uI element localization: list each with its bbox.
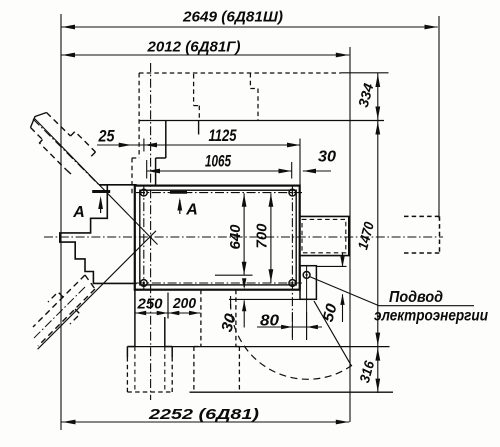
svg-text:А: А [72,204,85,221]
dim 334 arrows [375,74,380,120]
ram far position dashed top [404,215,440,217]
extension line y=392.2 [190,391,394,393]
band2 step b [70,309,80,324]
band2 edge b [38,289,95,346]
diagonal axis lower [38,231,156,349]
hole row centerline bottom [136,282,302,284]
dimension 2252 label [148,406,259,423]
dashed column mid edge b [198,106,200,120]
dashed column left lower [131,158,133,196]
dim 1470 label [354,220,377,251]
band upper edge a [47,113,71,137]
svg-text:1125: 1125 [209,126,237,145]
dimension 2012 right arrow [336,53,349,58]
ext tick x=146.7 for 1065 [146,160,148,179]
dashed column left edge [138,73,140,158]
dim 316 label [356,359,377,385]
dashed column right edge b [257,89,259,121]
dim 1125 label [209,126,237,145]
dimension 2252 left arrow [63,420,76,425]
ext line y=275.2 for 640 [215,274,253,276]
ext tick x=143.9 [143,139,145,152]
dim 640 arrows [242,194,247,275]
extension line x=439 (2649 far end) [438,16,440,219]
section mark A left thick [92,190,110,193]
dimension 2649 left arrow [62,25,75,30]
ext line x=300 [299,139,301,186]
dim 200 arrows [168,311,200,315]
dim 25/1125 left arrow [144,143,157,148]
door swing dashed arc [231,304,353,379]
box top extension right [316,265,346,267]
svg-text:электроэнергии: электроэнергии [374,308,488,325]
section arrow A right [177,198,182,215]
ram far position dashed right [439,216,441,253]
svg-text:1065: 1065 [205,152,231,171]
dim 700 arrows [269,194,274,282]
dim 200 label [172,295,197,312]
ext tick x=230.6 [230,296,232,308]
ext tick x=291.7 for 1065 [291,162,293,179]
power label line1 [389,289,443,306]
band cap upper-left [31,113,47,128]
extension line y=120.5 long [139,120,384,122]
band2 edge a [33,275,85,327]
bolt hole bottom-right [289,280,296,287]
dim 1065 arrows [147,169,292,174]
left leg left edge [134,290,136,347]
dim 30 bottom arrow down [242,278,246,289]
dim 30 top label [318,149,336,166]
swivel head stepped outline [60,185,137,284]
head top edge [99,184,137,186]
dimension 2252 line [61,421,349,423]
dashed column mid step [194,105,200,107]
hole column centerline left [143,187,145,291]
dim 30 bottom arrow up [242,300,246,327]
dim 640 label [228,225,244,250]
dashed column right edge a [249,73,251,89]
dashed column right step [250,88,258,90]
door open line [314,301,352,366]
svg-text:25: 25 [98,127,115,146]
band lower step [40,140,67,171]
ext tick x=307 lower [306,312,308,340]
dim 25-1125 shared line [97,144,300,146]
svg-text:2252 (6Д81): 2252 (6Д81) [148,406,259,423]
section label A right [185,202,198,219]
ram inner dashed [302,219,346,252]
right leg dashed left [200,290,202,347]
bolt hole top-left [140,189,147,196]
bed inner rectangle [140,190,296,285]
dim 334 label [355,81,377,109]
svg-text:1470: 1470 [354,220,377,251]
svg-text:334: 334 [355,81,377,109]
dim 50 line lower [340,294,344,322]
left leg hidden edge left [134,347,136,391]
svg-text:А: А [185,202,198,219]
electrical hole axis [306,266,308,340]
dimension 2012 label [146,39,240,56]
electrical box [300,266,316,300]
column left edge lower [155,158,157,186]
svg-text:50: 50 [320,301,341,323]
dim 80 line [257,326,322,328]
bed outer rectangle [135,186,300,290]
right leg lower sides [194,347,240,393]
dimension 2012 left arrow [62,53,75,58]
dim 80 label [260,313,279,330]
right leg dashed right [235,290,237,347]
section mark A right thick [170,191,187,194]
svg-text:640: 640 [228,225,244,250]
svg-text:250: 250 [137,296,164,313]
svg-text:2012 (6Д81Г): 2012 (6Д81Г) [146,39,240,56]
dim 700 label [255,224,271,249]
dim 640 line [243,193,245,275]
dimension line x=378 (334/1470/316 chain) [377,73,379,393]
dimension 2012 line [61,54,349,56]
band2 step a [48,292,63,302]
column inner edge right [198,121,200,135]
dim 50 line upper [340,253,344,267]
dim 80 arrows [281,325,318,329]
hole row centerline top [136,192,302,194]
horizontal centerline [44,236,443,238]
dim 25 label [98,127,115,146]
bolt hole top-right [289,189,296,196]
svg-text:316: 316 [356,359,377,385]
section label A left [72,204,85,221]
dash-dot axis lower-left [33,287,85,339]
ext tick x=168 [167,293,169,319]
hole column centerline right [291,187,293,341]
power leader line [310,277,379,306]
dashed column step left [132,157,139,159]
left leg hidden edge right [164,347,166,391]
extension line left x=61 [60,14,62,430]
svg-text:Подвод: Подвод [389,289,443,306]
column step [156,157,166,159]
vertical centerline [150,63,152,400]
svg-text:30: 30 [318,149,336,166]
electrical hole [303,272,310,279]
band upper cap [91,152,96,157]
dim 30 top arrow [303,169,316,174]
left leg shoulder [127,346,172,348]
dim 200 line [168,312,200,314]
dashed column mid edge a [193,74,195,106]
power label underline [379,305,474,307]
extension line y=346.5 full width [127,346,389,348]
ext tick x=293 lower [291,312,293,340]
dim 250 line [135,312,168,314]
dimension 2649 line [61,26,438,28]
dim 1470 arrows [375,122,380,346]
dim 1125 right arrow [287,143,300,148]
column left edge upper [165,121,167,159]
dim 50 label [320,301,341,323]
dim 700 line [270,193,272,282]
dimension 2252 right arrow [336,420,349,425]
dashed column top edge [139,72,341,74]
band2 cap [85,275,95,289]
dimension 2649 right arrow [425,25,438,30]
power label line2 [374,308,488,325]
diagonal axis upper [34,118,158,245]
dim 1065 line [147,170,292,172]
dim 1065 label [205,152,231,171]
band lower edge a [31,128,43,140]
band upper step [71,132,96,153]
right leg shoulder [194,346,240,348]
box bottom extension left [229,298,300,300]
dim 250 arrows [135,311,168,315]
band lower edge b [67,170,72,175]
left leg right edge [164,317,166,347]
svg-text:80: 80 [260,313,279,330]
dim 250 label [137,296,164,313]
ram far position dashed bottom [404,252,440,254]
svg-text:700: 700 [255,224,271,249]
dash-dot axis upper-left [33,119,100,186]
dim 25 right-point arrow [119,143,132,148]
svg-text:30: 30 [219,312,240,334]
svg-text:200: 200 [172,295,197,312]
dim 316 arrows [375,348,380,392]
dimension 2649 label [182,9,283,26]
left leg lower left [126,347,128,393]
section arrow A left [98,196,103,213]
left leg bottom [127,391,172,393]
dim 30 top line [303,170,331,172]
extension line y=73 solid part [341,72,389,74]
svg-text:2649 (6Д81Ш): 2649 (6Д81Ш) [182,9,283,26]
bolt hole bottom-left [140,280,147,287]
ram outline [300,216,349,255]
dim 30 bottom label [219,312,240,334]
extension line right x=350 (2012/2252) [349,47,351,422]
left leg lower right [171,347,173,393]
